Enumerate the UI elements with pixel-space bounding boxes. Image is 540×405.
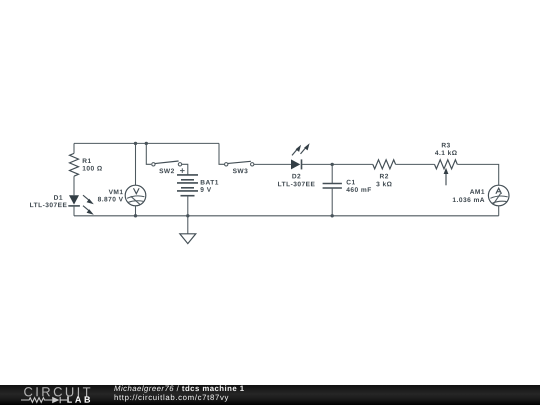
svg-text:4.1 kΩ: 4.1 kΩ [435,150,458,157]
node C1 top [331,163,334,166]
svg-text:AM1: AM1 [470,189,485,196]
wire C1 node to R2 [332,163,373,165]
wire R1 to D1 [73,176,75,195]
LED D2 [291,143,310,169]
wire top horizontal [74,142,219,144]
ground [180,216,196,244]
wire AM1 to bottom [498,206,500,216]
svg-text:D1: D1 [54,195,63,202]
wire SW3 branch [219,143,224,164]
wire VM1 stem top [135,143,137,185]
wire D2 to C1 node [302,163,333,165]
svg-text:D2: D2 [292,173,301,180]
svg-text:SW2: SW2 [159,168,175,175]
svg-text:3 kΩ: 3 kΩ [376,181,393,188]
svg-text:R3: R3 [441,142,450,149]
svg-text:C1: C1 [346,179,355,186]
switch SW2 [152,161,182,166]
resistor R1 [70,153,79,176]
wire bottom horizontal [74,215,499,217]
resistor R2 [373,160,396,169]
symbol V of VM1 [134,188,140,194]
svg-text:LTL-307EE: LTL-307EE [278,181,316,188]
voltmeter VM1 [125,185,146,206]
wire VM1 stem bottom [135,206,137,216]
node SW2 top [145,142,148,145]
svg-text:VM1: VM1 [109,189,124,196]
footer line 2 [114,393,229,402]
svg-text:SW3: SW3 [233,168,249,175]
svg-text:R2: R2 [380,173,389,180]
node VM1 bottom [134,214,137,217]
footer line 1 [114,384,245,393]
wire SW2 branch [146,143,151,164]
svg-text:1.036 mA: 1.036 mA [452,197,485,204]
capacitor C1 [323,164,342,215]
wire battery to bottom [187,196,189,216]
wire SW3 to D2 [254,163,291,165]
CircuitLab logo [0,385,110,405]
wire R2 to R3 [396,163,435,165]
footer bar [0,385,540,405]
potentiometer R3 [435,160,458,186]
symbol A of AM1 [496,188,502,194]
svg-text:BAT1: BAT1 [200,179,219,186]
svg-text:100 Ω: 100 Ω [82,166,103,173]
battery BAT1 [177,168,198,195]
svg-text:LAB: LAB [67,395,93,405]
svg-text:9 V: 9 V [200,187,211,194]
wire SW2 to battery [182,164,188,175]
svg-text:8.870 V: 8.870 V [98,196,124,203]
svg-text:460 mF: 460 mF [346,187,371,194]
svg-text:R1: R1 [82,158,91,165]
wire D1 to bottom [73,206,75,216]
wire left vertical upper lead [73,143,75,153]
LED D1 [68,195,94,215]
switch SW3 [225,161,254,166]
node battery bottom [186,214,189,217]
ammeter AM1 [488,185,509,206]
wire R3 to AM1 [457,164,498,185]
node C1 bottom [331,214,334,217]
node VM1 top [134,142,137,145]
svg-text:LTL-307EE: LTL-307EE [30,202,68,209]
